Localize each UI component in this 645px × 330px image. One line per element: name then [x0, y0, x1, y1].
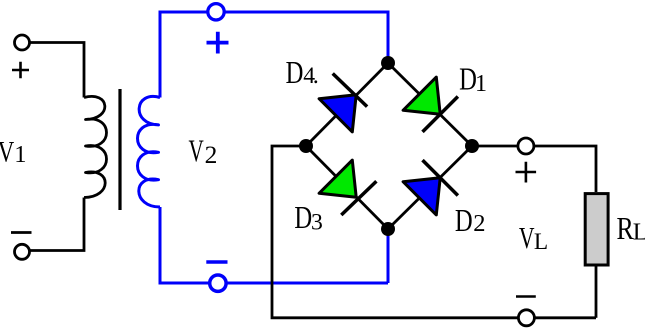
svg-text:D: D — [294, 201, 312, 236]
wire resistor bottom lead — [595, 267, 598, 318]
minus sign VL — [516, 295, 536, 298]
wire V1 bottom lead — [31, 198, 85, 251]
svg-text:1: 1 — [475, 71, 487, 97]
terminal V1 bottom — [15, 244, 30, 259]
wire V1 top lead — [31, 43, 85, 98]
resistor RL — [585, 194, 608, 265]
svg-text:1: 1 — [14, 141, 26, 168]
wire secondary top — [160, 12, 388, 98]
label V2 — [189, 133, 218, 169]
wire right node to resistor — [472, 146, 596, 192]
diode D4 — [319, 74, 367, 132]
svg-text:L: L — [534, 229, 548, 255]
node left — [299, 139, 313, 153]
inductor secondary winding — [138, 96, 161, 207]
wire bridge top-left branch — [306, 63, 388, 146]
svg-text:2: 2 — [473, 210, 485, 237]
svg-text:V: V — [519, 220, 535, 255]
diode D3 — [319, 160, 376, 215]
terminal VL bottom — [518, 310, 534, 326]
svg-text:V: V — [0, 136, 14, 168]
svg-text:2: 2 — [205, 140, 218, 169]
label RL — [617, 212, 645, 247]
wire bridge bottom-left branch — [306, 146, 388, 229]
wire bridge bottom node down — [387, 229, 390, 283]
plus sign V2 — [207, 32, 229, 54]
terminal V2 bottom — [210, 275, 226, 291]
label D1 — [459, 63, 487, 98]
wire secondary bottom — [160, 207, 388, 283]
label D2 — [455, 204, 486, 239]
svg-text:L: L — [633, 219, 645, 246]
diode D1 — [403, 77, 458, 132]
plus sign VL — [516, 162, 537, 183]
node right — [465, 139, 479, 153]
label VL — [519, 220, 548, 255]
label V1 — [0, 136, 26, 168]
svg-text:D: D — [286, 56, 304, 91]
plus sign V1 — [12, 62, 29, 78]
terminal V1 top — [15, 35, 30, 50]
svg-text:4: 4 — [303, 63, 315, 89]
diode D2 — [403, 160, 458, 215]
svg-text:R: R — [617, 212, 635, 247]
wire bridge top-right branch — [388, 63, 472, 146]
label D4 — [286, 56, 318, 91]
node top — [381, 56, 395, 70]
svg-text:3: 3 — [311, 209, 323, 235]
minus sign V2 — [206, 260, 227, 263]
minus sign V1 — [11, 231, 32, 234]
svg-text:V: V — [189, 133, 205, 168]
inductor primary winding — [84, 96, 107, 197]
svg-text:D: D — [455, 204, 473, 239]
wire bridge bottom-right branch — [388, 146, 472, 229]
terminal V2 top — [208, 4, 224, 20]
label D3 — [294, 201, 322, 236]
terminal VL top — [518, 138, 534, 154]
transformer core — [118, 89, 121, 210]
node bottom — [381, 222, 395, 236]
wire left node to bottom rail — [272, 146, 596, 318]
